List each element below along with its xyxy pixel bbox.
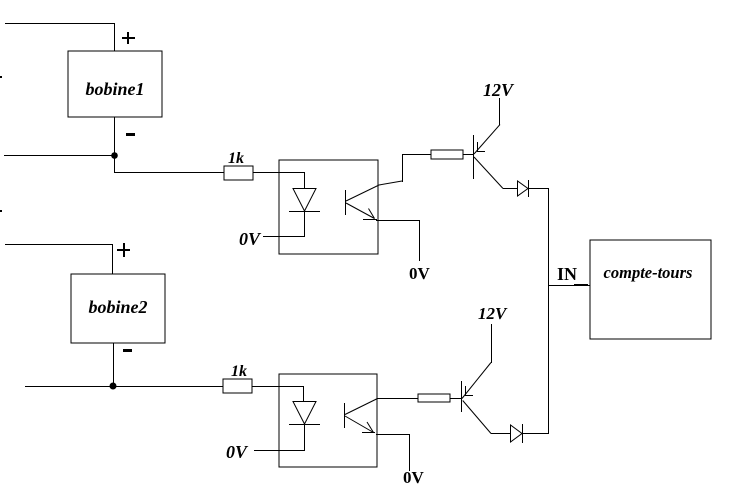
svg-text:1k: 1k (231, 363, 247, 380)
svg-text:0V: 0V (226, 442, 249, 462)
svg-text:12V: 12V (478, 304, 508, 323)
svg-text:0V: 0V (403, 468, 425, 487)
svg-text:12V: 12V (483, 80, 515, 100)
svg-text:compte-tours: compte-tours (604, 263, 693, 282)
svg-text:bobine2: bobine2 (88, 297, 147, 317)
svg-text:0V: 0V (409, 264, 431, 283)
svg-text:0V: 0V (239, 229, 262, 249)
svg-text:bobine1: bobine1 (85, 79, 144, 99)
svg-text:1k: 1k (228, 150, 244, 167)
svg-text:IN: IN (557, 264, 577, 284)
